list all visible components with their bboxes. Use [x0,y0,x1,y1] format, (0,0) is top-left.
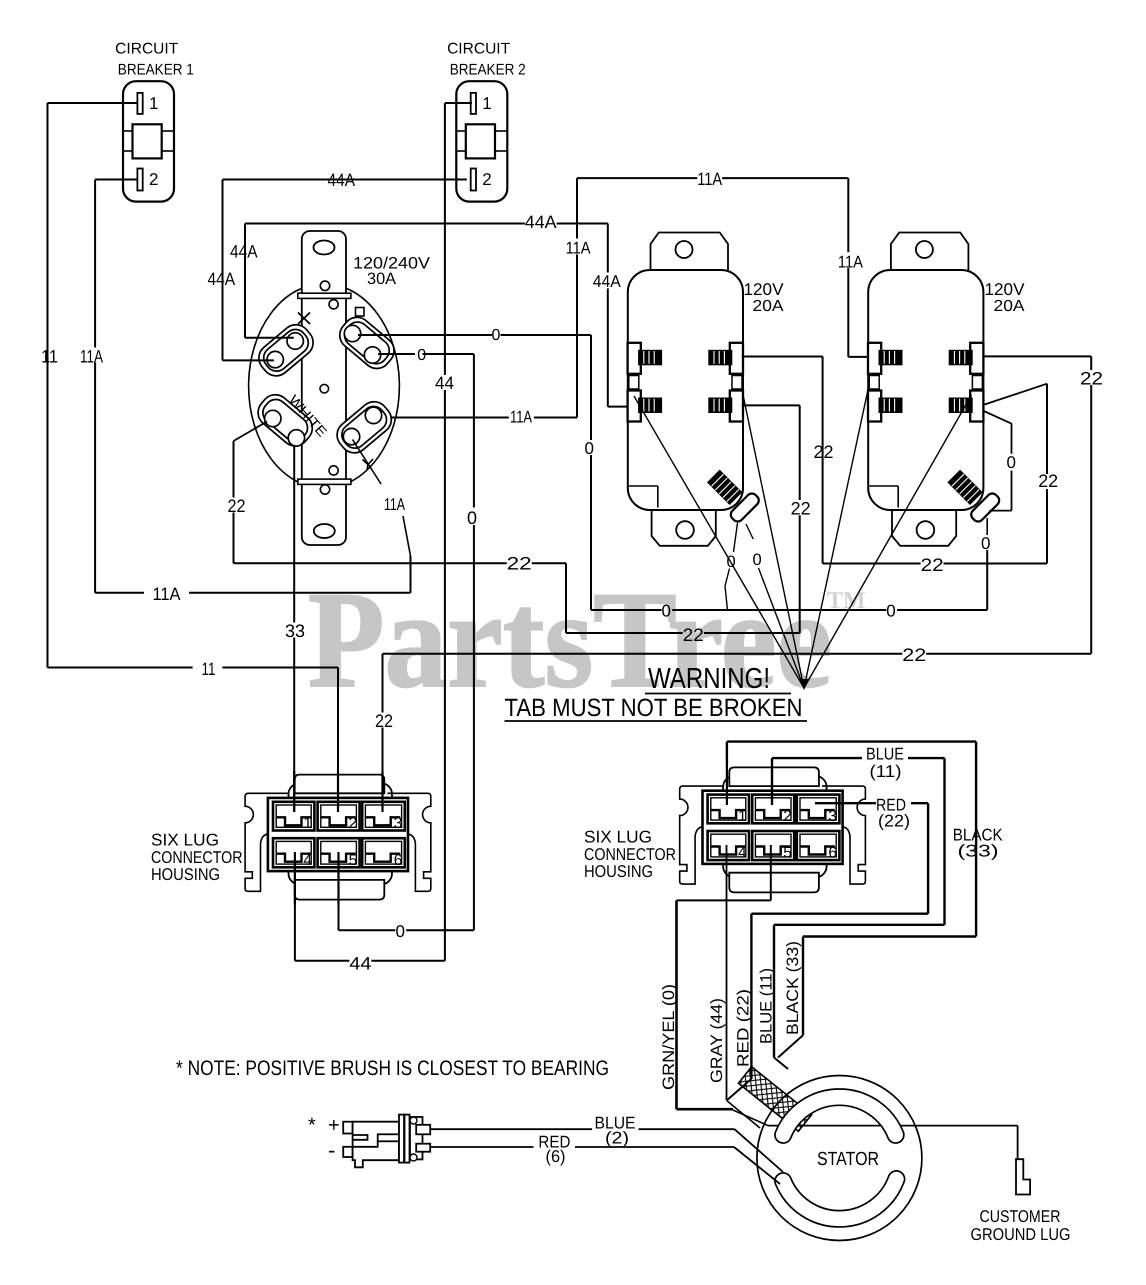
circuit breaker 2 [456,81,507,201]
RIGHT lug cell 6 [797,831,840,860]
wire 22 net C: REC2 upper-right screw to left connector cell 3 [983,355,1091,357]
svg-text:22: 22 [814,442,834,462]
REC2 top tab hole [916,241,933,258]
svg-text:3: 3 [828,808,837,825]
30A strap screw hole (bottom) [320,485,329,494]
svg-text:3: 3 [394,815,403,832]
svg-text:22: 22 [228,496,246,516]
RIGHT left wing [680,786,723,884]
brush plate hole bottom [410,1154,417,1161]
30A receptacle mounting strap [302,231,346,545]
svg-text:22: 22 [375,711,393,731]
LEFT lug cell 3 [362,802,405,831]
REC1 right lower terminal screw [730,391,743,422]
svg-text:*: * [308,1115,316,1137]
warning arrow to REC1 right tab [742,390,804,688]
circuit breaker 1 [123,81,174,201]
REC2 bottom mounting tab [892,510,956,546]
warning arrow to REC2 left tab [804,392,868,688]
LEFT right wing [387,793,430,891]
svg-text:(22): (22) [878,812,910,831]
breaker 1 terminal 1 [137,93,142,114]
svg-text:0: 0 [753,551,762,569]
LEFT lug cell 4 [273,838,314,867]
brush end plate 1 [399,1115,404,1163]
brush holder body [353,1122,399,1168]
wire 44A: CB2 terminal 2 to 30A slot X lower [223,179,467,181]
svg-text:20A: 20A [994,298,1025,315]
Y mark [363,460,369,465]
svg-text:6: 6 [828,845,837,862]
svg-text:(6): (6) [546,1147,566,1166]
RIGHT right wing [822,786,865,884]
REC1 left lower terminal screw [628,391,641,422]
LEFT bottom tab [295,880,385,900]
LEFT left wing [245,793,288,891]
svg-text:0: 0 [492,327,501,344]
wire stub cell3 (22) [381,771,383,812]
svg-text:0: 0 [981,534,990,553]
svg-text:44A: 44A [328,170,356,190]
LEFT lug cell 6 [362,838,405,867]
svg-text:22: 22 [1038,471,1058,491]
wire 0: REC2 lower-right screw to ground screw head [983,411,1012,424]
wire BLACK(33): right cell 1 loop [726,764,728,805]
REC1 top mounting tab [651,233,729,271]
REC2 left breakaway tab [869,376,879,390]
REC2 right upper terminal screw [970,343,983,374]
svg-text:+: + [328,1115,340,1137]
stator top winding arc [775,1089,904,1143]
breaker 1 terminal 2 [137,169,142,191]
RIGHT bottom tab [729,873,819,893]
REC2 right lower terminal screw [970,391,983,422]
wire 11A: CB1 terminal 2 to 30A receptacle Y slot [95,179,137,181]
REC1 left breakaway tab [629,376,639,390]
brush - terminal lug [343,1147,352,1157]
LEFT body [289,783,393,884]
REC2 left upper terminal screw [868,343,881,374]
customer ground lug [1016,1159,1030,1194]
svg-text:44: 44 [435,373,454,393]
wire 44A vertical into REC1 lower-left screw [607,224,609,273]
LEFT lug cell 1 [273,802,314,831]
svg-text:GROUND LUG: GROUND LUG [971,1225,1071,1244]
svg-text:22: 22 [683,625,704,645]
wire 44A: branch to 30A slot X upper [244,224,246,338]
svg-text:5: 5 [783,845,792,862]
wire BLUE(11): right cell 2 loop [771,758,773,805]
wire 11: CB1 terminal 1 to left connector cell 2 [48,102,138,104]
wire stub cell1 (33) [293,771,295,812]
REC2 ground screw [942,465,1001,524]
30A top break-off bar [298,293,351,298]
svg-text:(33): (33) [958,842,999,861]
svg-text:22: 22 [791,499,811,519]
wire 11A: 30A receptacle Y slot to junction and REC2 upper-left screw [391,417,509,419]
svg-text:0: 0 [1007,453,1016,472]
RIGHT lug grid [703,791,843,864]
svg-text:RED (22): RED (22) [735,989,753,1067]
REC1 ground screw [702,465,761,524]
wire 22 net A: 30A slot to REC1 lower-right screw [234,422,268,442]
warning arrow fan convergence point [799,679,809,690]
svg-text:120V: 120V [985,280,1026,299]
svg-text:1: 1 [482,94,491,113]
wire RED(6): brush to stator [430,1146,533,1148]
30A strap hole (lower) [329,466,338,475]
svg-text:STATOR: STATOR [817,1149,879,1170]
brush plate hole top [410,1117,417,1124]
svg-text:BREAKER 2: BREAKER 2 [450,61,526,78]
brush holder slot bar [378,1134,403,1141]
svg-text:1: 1 [738,808,747,825]
leader from REC1 ground screw to 0 0 labels [746,524,753,539]
svg-text:6: 6 [394,852,403,869]
brush pin lower [416,1144,430,1152]
RIGHT lug cell 3 [797,795,840,824]
svg-text:11: 11 [41,347,58,367]
warning arrow to REC2 right tab [804,395,972,688]
svg-text:2: 2 [149,170,158,189]
svg-text:0: 0 [662,602,671,621]
RIGHT body [723,776,827,877]
wire stub cell2 (11) [337,771,339,812]
svg-text:GRN/YEL (0): GRN/YEL (0) [660,984,678,1090]
wire GRN/YEL(0): right cell 5 to customer ground lug [770,845,772,900]
REC2 body [868,270,983,510]
svg-text:BLUE: BLUE [866,745,904,764]
30A strap center hole [320,384,329,393]
REC1 bottom mounting tab [652,510,716,546]
REC1 top tab hole [676,241,693,258]
svg-text:0: 0 [886,602,895,621]
30A receptacle slot Y (bottom-right) [331,396,397,459]
svg-text:CIRCUIT: CIRCUIT [447,41,511,58]
svg-text:20A: 20A [753,298,784,315]
REC1 left upper terminal screw [628,343,641,374]
svg-text:44A: 44A [208,269,236,289]
LEFT lug cell 2 [318,802,360,831]
REC1 right breakaway tab [732,376,742,390]
svg-text:BREAKER 1: BREAKER 1 [118,61,194,78]
30A strap screw hole (top) [320,281,329,290]
svg-text:22: 22 [921,555,944,575]
svg-text:(2): (2) [605,1129,629,1148]
svg-text:CUSTOMER: CUSTOMER [980,1207,1061,1226]
svg-text:44A: 44A [230,242,258,262]
RIGHT lug cell 5 [752,831,794,860]
LEFT top tab [295,775,385,794]
warning arrow to REC1 left tab [634,396,804,688]
svg-text:BLUE (11): BLUE (11) [758,968,776,1044]
RIGHT lug cell 2 [752,795,794,824]
svg-text:11A: 11A [384,495,405,514]
svg-text:30A: 30A [367,270,396,288]
breaker 2 terminal 1 [471,93,476,114]
svg-text:11A: 11A [697,169,722,189]
svg-text:11: 11 [202,659,216,679]
REC1 body [628,270,743,510]
30A receptacle face [249,284,400,489]
REC2 top mounting tab [891,233,969,271]
wire stub cell4 (44) [294,852,296,905]
wire 0 riser to REC2 ground screw [986,518,988,535]
brush pin upper [416,1125,430,1135]
svg-text:11A: 11A [80,347,103,367]
svg-text:(11): (11) [870,762,902,781]
svg-text:0: 0 [396,922,405,941]
wire 44: CB2 terminal 1 down to left connector cell 4 [445,102,472,104]
cable outline extension [727,1101,760,1128]
30A receptacle slot white (bottom-left) [252,389,318,452]
svg-text:44: 44 [349,954,371,974]
wire RED(22): right cell 3 loop [815,802,876,804]
svg-text:22: 22 [507,554,532,574]
svg-text:HOUSING: HOUSING [151,865,220,884]
REC1 right upper terminal screw [730,343,743,374]
svg-text:SIX LUG: SIX LUG [584,828,652,847]
LEFT lug cell 5 [318,838,360,867]
brush + terminal lug [343,1122,352,1134]
svg-text:11A: 11A [838,253,864,272]
stator outer circle [757,1076,922,1241]
RIGHT lug cell 1 [708,795,749,824]
30A receptacle slot X (top-left) [253,319,319,382]
svg-text:SIX LUG: SIX LUG [151,831,219,850]
svg-text:2: 2 [783,808,792,825]
LEFT lug grid [268,798,408,871]
wire GRAY(44): right cell 4 down [726,845,728,1101]
svg-text:5: 5 [349,852,358,869]
svg-text:WARNING!: WARNING! [648,663,770,695]
breaker 2 terminal 2 [471,169,476,191]
wire 0 neutral bus: 30A slot upper to receptacle ground screws [358,334,492,336]
svg-text:44A: 44A [525,212,557,232]
svg-text:4: 4 [303,852,312,869]
RIGHT lug cell 4 [708,831,749,860]
wire 22 net B: REC1 upper-right screw to REC2 lower-right screw [742,356,823,358]
svg-text:11A: 11A [510,408,532,427]
svg-text:BLACK (33): BLACK (33) [784,941,802,1035]
X mark [298,313,310,325]
svg-text:2: 2 [349,815,358,832]
svg-text:CIRCUIT: CIRCUIT [115,41,179,58]
svg-text:22: 22 [902,645,926,665]
svg-text:0: 0 [417,347,426,364]
30A strap hole [329,300,338,309]
svg-text:GRAY (44): GRAY (44) [708,998,726,1083]
wire BLUE(2): brush to stator [430,1128,592,1130]
svg-text:TAB MUST NOT BE BROKEN: TAB MUST NOT BE BROKEN [505,694,803,722]
brush connector block [410,1117,423,1159]
brush pin hole [417,1145,424,1152]
svg-text:* NOTE: POSITIVE BRUSH IS CLOS: * NOTE: POSITIVE BRUSH IS CLOSEST TO BEA… [176,1057,609,1080]
REC2 right breakaway tab [972,376,982,390]
stator bottom winding arc [775,1171,905,1227]
small square mark [356,308,365,317]
30A receptacle slot top-right [334,312,400,375]
svg-text:33: 33 [285,621,305,641]
svg-text:2: 2 [482,170,491,189]
svg-text:4: 4 [738,845,747,862]
svg-text:1: 1 [303,815,312,832]
svg-text:0: 0 [467,508,477,528]
brush end plate 2 [405,1115,410,1163]
REC2 bottom tab hole [917,521,935,539]
svg-text:22: 22 [1080,369,1103,389]
svg-text:-: - [328,1138,335,1163]
svg-text:11A: 11A [566,239,592,258]
svg-text:1: 1 [149,94,158,113]
svg-text:11A: 11A [153,584,181,604]
warning arrow to right 0 label [759,568,805,688]
svg-text:HOUSING: HOUSING [584,862,653,881]
svg-text:120V: 120V [744,280,785,299]
svg-text:44A: 44A [593,272,622,291]
wire 0: 30A slot to left connector cell 5 [378,353,415,355]
svg-text:0: 0 [585,439,594,458]
wire 33: 30A white slot to left connector cell 1 [293,446,295,623]
REC1 bottom tab hole [676,521,694,539]
REC2 left lower terminal screw [868,391,881,422]
30A bottom break-off bar [298,479,351,484]
wire stub cell5 (0) [337,852,339,905]
RIGHT top tab [729,767,819,786]
